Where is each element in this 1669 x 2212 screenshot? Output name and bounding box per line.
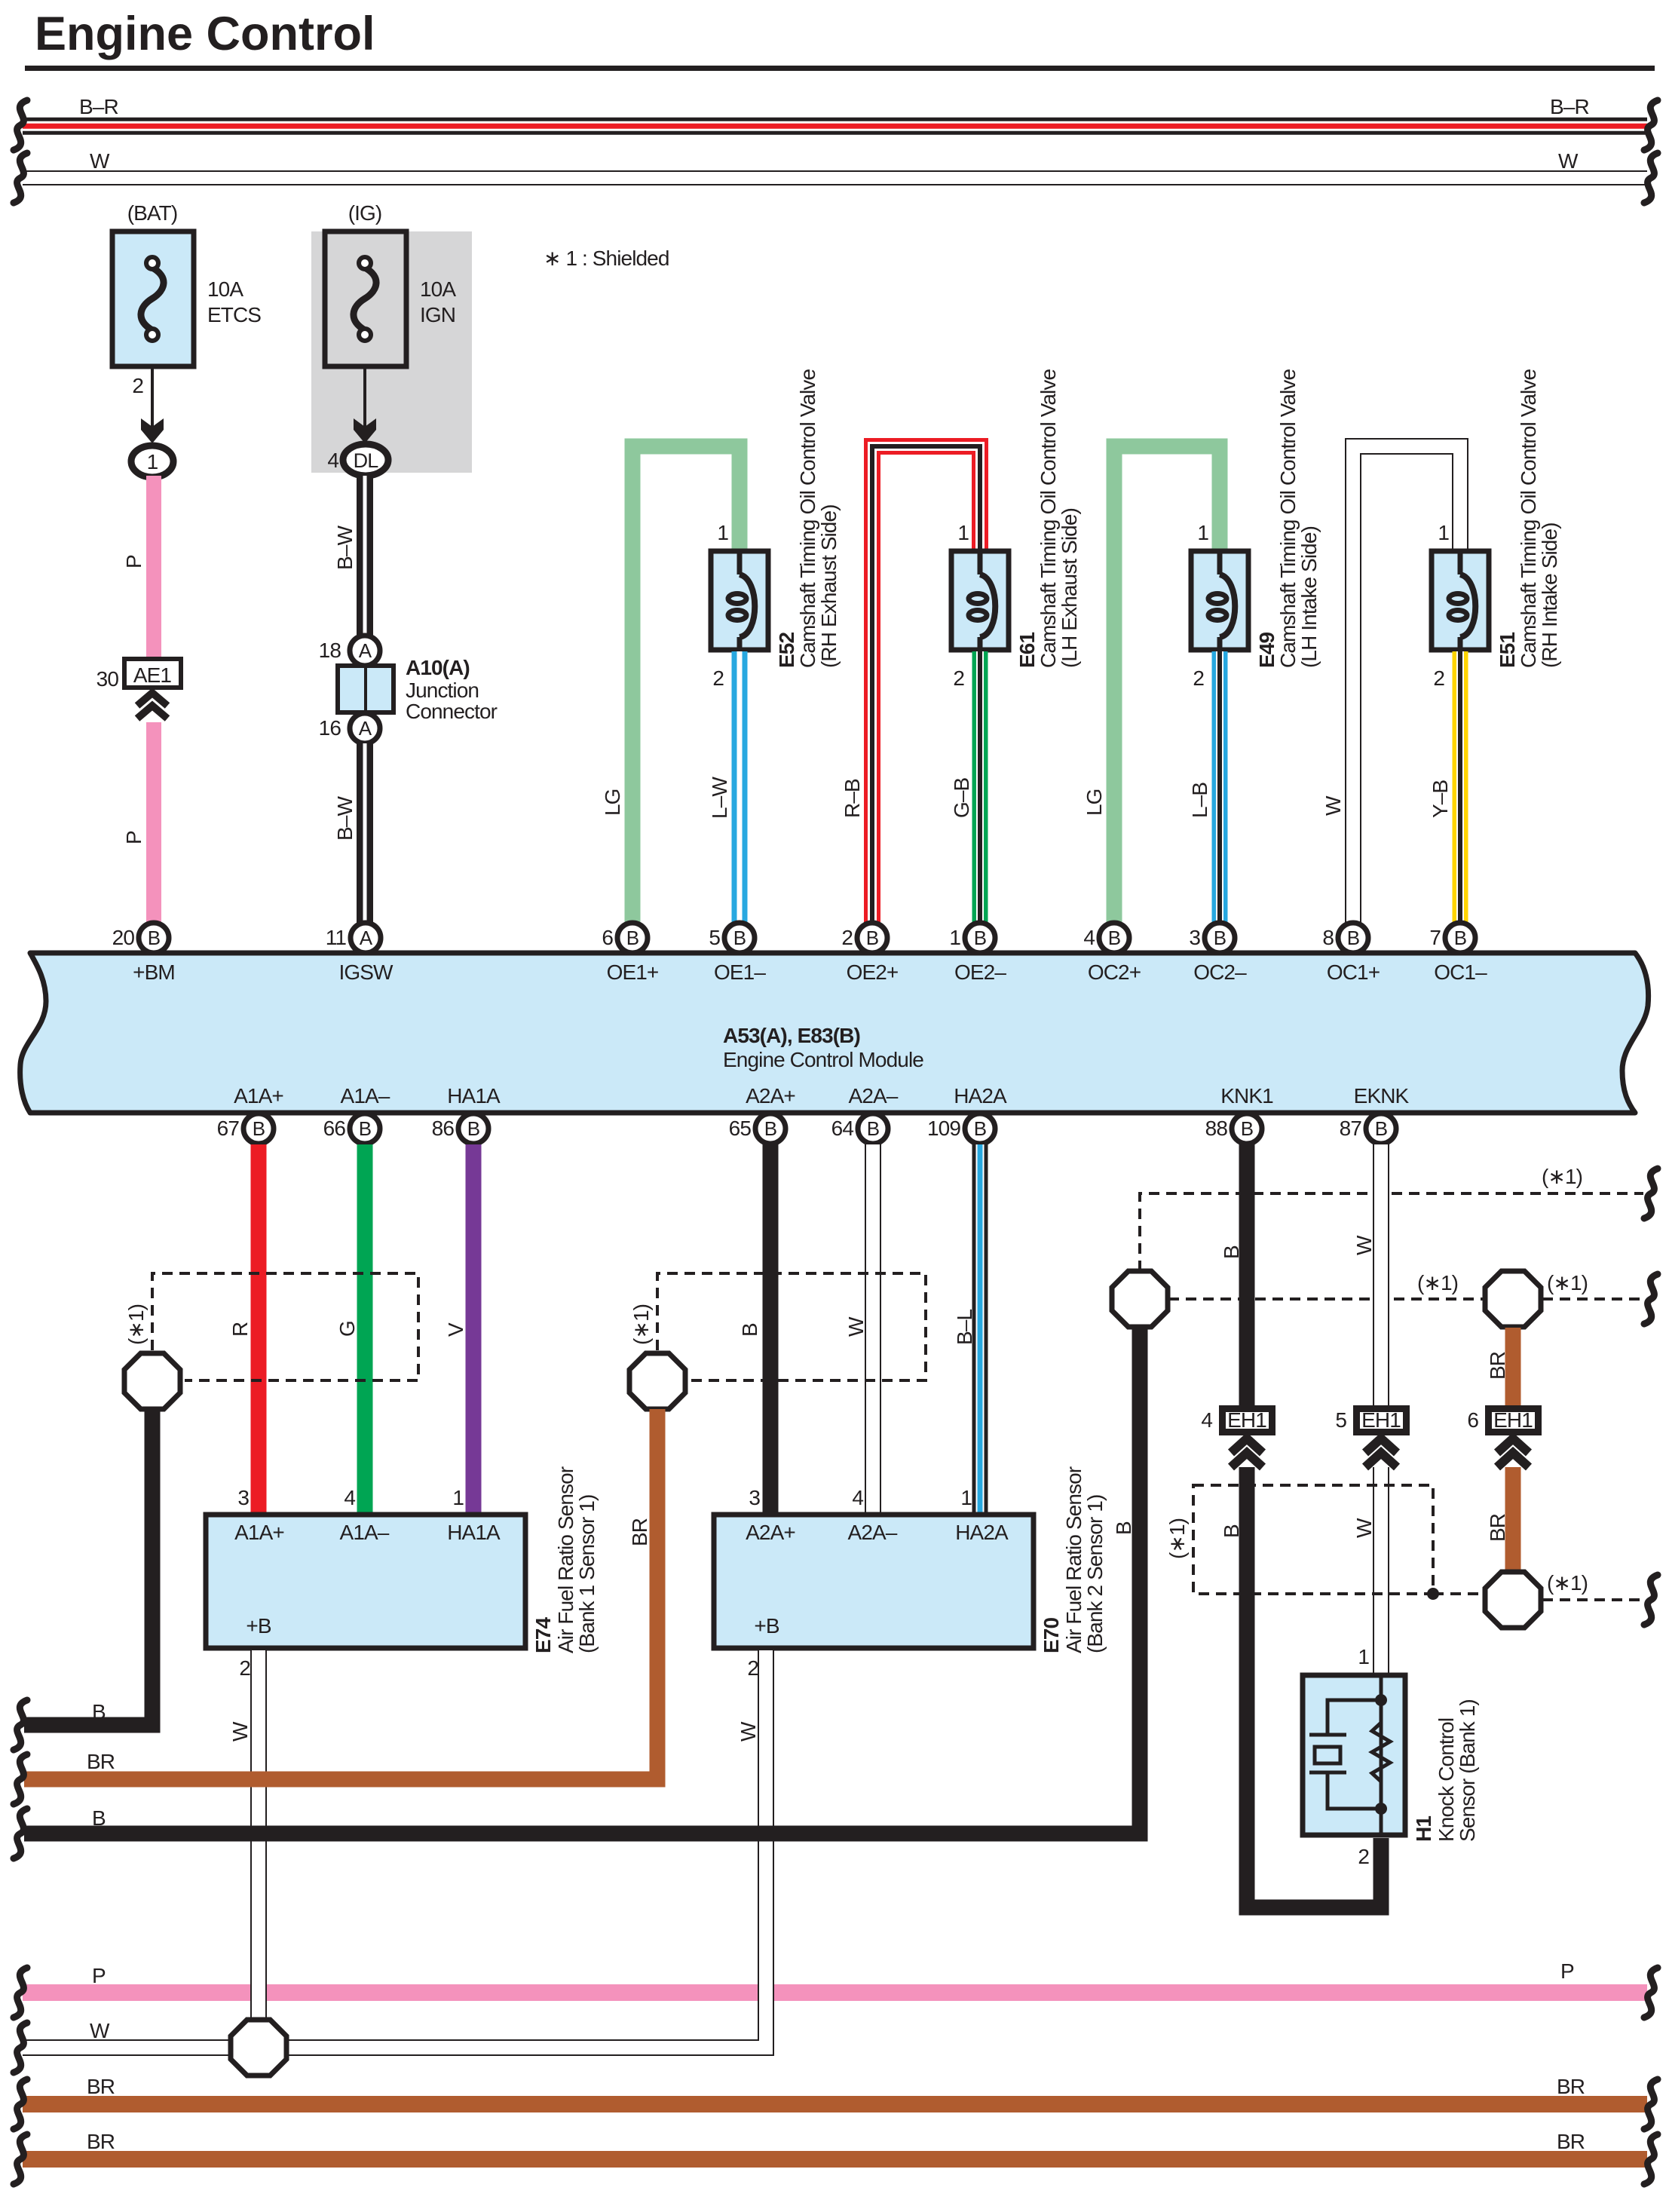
break symbol B bus 2	[14, 1809, 27, 1858]
svg-text:1: 1	[452, 1486, 464, 1509]
fuse 10A IGN box	[325, 231, 406, 366]
ECM name label	[723, 1024, 923, 1071]
svg-text:Camshaft Timing Oil Control Va: Camshaft Timing Oil Control Valve	[1517, 369, 1540, 668]
fuse 10A ETCS box	[112, 231, 194, 366]
svg-text:A1A+: A1A+	[234, 1084, 283, 1108]
svg-text:Air Fuel Ratio Sensor: Air Fuel Ratio Sensor	[1062, 1466, 1086, 1653]
break symbol dashed mid	[1644, 1274, 1658, 1324]
svg-text:5: 5	[1335, 1408, 1346, 1432]
wire L-W (E52 pin 2 to ECM OE1-)	[732, 651, 748, 924]
svg-text:1: 1	[1438, 521, 1449, 544]
E52 component label	[775, 369, 841, 668]
label 10A IGN	[420, 277, 456, 326]
svg-text:A2A+: A2A+	[746, 1521, 795, 1544]
svg-text:+B: +B	[754, 1614, 779, 1638]
svg-text:1: 1	[960, 1486, 972, 1509]
svg-text:E49: E49	[1255, 633, 1279, 668]
svg-text:OE2+: OE2+	[847, 960, 899, 984]
svg-text:A: A	[359, 639, 372, 662]
svg-text:HA1A: HA1A	[447, 1521, 501, 1544]
svg-text:B: B	[92, 1700, 106, 1723]
svg-text:Connector: Connector	[406, 700, 498, 723]
svg-text:B: B	[867, 1117, 879, 1140]
shield box E74 (dashed)	[152, 1273, 418, 1380]
svg-text:7: 7	[1429, 926, 1441, 949]
wire LG (ECM OC2+ loop to E49 pin 1)	[1114, 446, 1220, 924]
svg-text:1: 1	[147, 450, 158, 473]
svg-text:B: B	[1220, 1524, 1243, 1538]
wire B-W (16A to ECM pin 11)	[357, 743, 373, 924]
svg-text:11: 11	[326, 926, 347, 949]
svg-text:G: G	[335, 1321, 359, 1337]
svg-text:30: 30	[96, 667, 119, 691]
svg-text:B: B	[1375, 1117, 1387, 1140]
svg-text:B: B	[733, 927, 746, 949]
svg-text:HA2A: HA2A	[954, 1084, 1007, 1108]
svg-text:(∗1): (∗1)	[629, 1304, 653, 1345]
wire bus BR 3	[23, 2151, 1647, 2168]
dashed shield line (top, *1)	[1140, 1193, 1643, 1271]
svg-text:2: 2	[132, 374, 143, 397]
svg-text:(∗1): (∗1)	[1547, 1571, 1588, 1595]
svg-text:(RH Exhaust Side): (RH Exhaust Side)	[817, 504, 841, 668]
svg-text:BR: BR	[87, 1750, 115, 1773]
junction connector A10(A)	[338, 666, 394, 712]
svg-text:V: V	[444, 1322, 467, 1337]
svg-text:+B: +B	[246, 1614, 271, 1638]
svg-text:W: W	[1352, 1235, 1376, 1255]
svg-text:88: 88	[1205, 1117, 1228, 1140]
svg-text:B: B	[92, 1806, 106, 1830]
ECM pin 64(B) A2A–	[831, 1084, 899, 1144]
label E70 Air Fuel Ratio Sensor	[1040, 1466, 1107, 1653]
svg-text:(LH Intake Side): (LH Intake Side)	[1297, 526, 1321, 668]
svg-text:65: 65	[729, 1117, 752, 1140]
ECM pin 67(B) A1A+	[217, 1084, 283, 1144]
svg-text:20: 20	[112, 926, 135, 949]
svg-text:1: 1	[949, 926, 960, 949]
svg-text:6: 6	[602, 926, 613, 949]
ECM pin 11(A) IGSW	[326, 923, 394, 984]
svg-text:3: 3	[237, 1486, 249, 1509]
svg-text:W: W	[228, 1721, 252, 1742]
svg-text:(Bank 1 Sensor 1): (Bank 1 Sensor 1)	[575, 1495, 599, 1653]
AF sensor E74 box	[206, 1515, 525, 1648]
svg-text:R–B: R–B	[841, 779, 864, 818]
svg-text:B: B	[866, 927, 878, 949]
ECM pin 1(B) OE2–	[949, 923, 1006, 984]
svg-text:Camshaft Timing Oil Control Va: Camshaft Timing Oil Control Valve	[796, 369, 819, 668]
svg-text:E51: E51	[1496, 633, 1519, 668]
svg-text:(∗1): (∗1)	[124, 1304, 148, 1345]
wire bus BR 2	[23, 2096, 1647, 2112]
svg-text:OC2+: OC2+	[1088, 960, 1141, 984]
svg-text:(IG): (IG)	[348, 201, 382, 225]
wire BR (E70 shield to BR bus)	[24, 1409, 657, 1779]
svg-text:10A: 10A	[420, 277, 456, 301]
svg-text:6: 6	[1467, 1408, 1478, 1432]
svg-text:Camshaft Timing Oil Control Va: Camshaft Timing Oil Control Valve	[1037, 369, 1060, 668]
shield octagon (bottom right)	[1485, 1572, 1541, 1628]
svg-text:B: B	[467, 1117, 479, 1140]
svg-text:R: R	[228, 1322, 252, 1337]
wire V (ECM HA1A to E74 pin 1)	[466, 1144, 482, 1514]
ECM pin 2(B) OE2+	[841, 923, 898, 984]
wire Y-B (E51 pin 2 to ECM OC1-)	[1453, 651, 1468, 924]
svg-text:Camshaft Timing Oil Control Va: Camshaft Timing Oil Control Valve	[1276, 369, 1300, 668]
svg-text:B: B	[974, 1117, 986, 1140]
svg-text:B: B	[1214, 927, 1226, 949]
svg-text:Air Fuel Ratio Sensor: Air Fuel Ratio Sensor	[554, 1466, 577, 1653]
svg-text:AE1: AE1	[133, 663, 172, 687]
break symbol dashed bottom	[1644, 1575, 1658, 1625]
wire B (E74 shield to ground bus)	[24, 1409, 152, 1725]
svg-text:E61: E61	[1015, 633, 1039, 668]
svg-text:64: 64	[831, 1117, 854, 1140]
svg-text:4: 4	[327, 449, 338, 472]
svg-text:BR: BR	[1557, 2075, 1585, 2098]
svg-text:L–B: L–B	[1188, 783, 1211, 818]
svg-text:87: 87	[1340, 1117, 1362, 1140]
svg-text:B: B	[148, 927, 160, 949]
shield octagon (BR, EH1-6)	[1485, 1271, 1541, 1327]
wire bus B-R (top)	[23, 118, 1647, 135]
svg-text:(Bank 2 Sensor 1): (Bank 2 Sensor 1)	[1083, 1495, 1107, 1653]
svg-text:B: B	[1241, 1117, 1253, 1140]
svg-text:P: P	[122, 555, 145, 568]
svg-text:2: 2	[1433, 666, 1444, 690]
break symbol W left	[14, 153, 27, 203]
svg-text:A1A–: A1A–	[341, 1084, 390, 1108]
svg-text:E70: E70	[1040, 1618, 1063, 1653]
svg-text:2: 2	[953, 666, 964, 690]
wire W (E70 +B to W bus)	[287, 1650, 766, 2048]
solenoid valve E61 box	[951, 551, 1009, 650]
E61 component label	[1015, 369, 1081, 668]
wire W (E74 +B to W bus octagon)	[250, 1650, 267, 2021]
svg-text:Sensor (Bank 1): Sensor (Bank 1)	[1456, 1699, 1479, 1842]
svg-text:3: 3	[749, 1486, 760, 1509]
svg-text:66: 66	[323, 1117, 346, 1140]
svg-text:4: 4	[852, 1486, 863, 1509]
svg-text:P: P	[1560, 1959, 1574, 1983]
ECM pin 6(B) OE1+	[602, 923, 658, 984]
svg-text:BR: BR	[1486, 1514, 1509, 1542]
wire B-W (DL to junction 18A)	[357, 476, 373, 637]
ECM pin 4(B) OC2+	[1083, 923, 1141, 984]
wire bus P (bottom)	[23, 1984, 1647, 2001]
svg-text:(∗1): (∗1)	[1417, 1271, 1458, 1294]
wire B (ECM A2A+ to E70 pin 3)	[763, 1144, 779, 1514]
svg-text:(∗1): (∗1)	[1542, 1165, 1582, 1188]
connector 1	[131, 446, 173, 477]
label H1 Knock Control Sensor	[1412, 1699, 1479, 1842]
wire G (ECM A1A- to E74 pin 4)	[357, 1144, 373, 1514]
svg-text:P: P	[122, 831, 145, 844]
dashed shield line (mid left)	[1168, 1297, 1484, 1301]
svg-text:A: A	[359, 717, 372, 740]
svg-text:B: B	[1220, 1245, 1243, 1259]
break symbol BR3 left	[14, 2134, 27, 2184]
break symbol dashed top	[1644, 1169, 1658, 1218]
svg-text:109: 109	[927, 1117, 960, 1140]
junction dot on dashed	[1427, 1588, 1439, 1600]
wire fuse IGN to connector DL	[363, 366, 366, 434]
break symbol BR bus 1	[14, 1754, 27, 1804]
E49 component label	[1255, 369, 1321, 668]
break symbol W right	[1644, 153, 1658, 203]
junction pin 18(A)	[350, 636, 380, 666]
svg-text:W: W	[844, 1316, 868, 1337]
label A10(A) Junction Connector	[406, 656, 498, 723]
svg-text:BR: BR	[87, 2075, 115, 2098]
svg-text:BR: BR	[628, 1518, 651, 1546]
svg-text:W: W	[90, 2019, 110, 2042]
svg-text:OE1–: OE1–	[714, 960, 766, 984]
svg-text:Junction: Junction	[406, 679, 479, 702]
label 10A ETCS	[207, 277, 261, 326]
svg-text:OC1–: OC1–	[1434, 960, 1487, 984]
break symbol P right	[1644, 1968, 1658, 2017]
wire B-L (ECM HA2A to E70 pin 1)	[972, 1144, 988, 1514]
ECM pin 8(B) OC1+	[1322, 923, 1380, 984]
chevron below EH1-6	[1497, 1438, 1529, 1453]
svg-text:(LH Exhaust Side): (LH Exhaust Side)	[1058, 508, 1081, 668]
svg-text:8: 8	[1322, 926, 1334, 949]
chevron below EH1-4	[1231, 1438, 1263, 1453]
fuse ETCS element	[141, 257, 164, 341]
svg-text:B: B	[626, 927, 639, 949]
svg-text:4: 4	[344, 1486, 355, 1509]
svg-text:A1A–: A1A–	[340, 1521, 390, 1544]
knock sensor H1 box	[1303, 1675, 1405, 1835]
svg-text:G–B: G–B	[950, 777, 973, 818]
wire fuse ETCS to connector 1	[151, 366, 154, 434]
svg-text:EH1: EH1	[1493, 1408, 1533, 1432]
svg-text:+BM: +BM	[133, 960, 175, 984]
svg-text:OE2–: OE2–	[954, 960, 1006, 984]
svg-text:10A: 10A	[207, 277, 243, 301]
svg-text:L–W: L–W	[708, 777, 731, 819]
svg-text:2: 2	[841, 926, 853, 949]
svg-text:86: 86	[432, 1117, 455, 1140]
connector AE1	[124, 659, 181, 688]
ECM pin 88(B) KNK1	[1205, 1084, 1273, 1144]
break symbol B bus 1	[14, 1700, 27, 1750]
svg-text:IGN: IGN	[420, 303, 455, 326]
svg-text:A1A+: A1A+	[234, 1521, 284, 1544]
svg-text:Engine Control: Engine Control	[35, 8, 375, 60]
ECM A53(A) E83(B) body	[20, 953, 1649, 1113]
ECM pin 86(B) HA1A	[432, 1084, 501, 1144]
ECM pin 5(B) OE1–	[709, 923, 766, 984]
svg-text:A: A	[360, 927, 373, 949]
break symbol BR3 right	[1644, 2134, 1658, 2184]
svg-text:B: B	[1112, 1521, 1135, 1535]
svg-text:4: 4	[1083, 926, 1095, 949]
svg-text:B–L: B–L	[953, 1310, 976, 1345]
arrow into connector DL	[354, 418, 376, 443]
svg-text:B–W: B–W	[333, 796, 357, 841]
wire BR (octagon to EH1-6)	[1505, 1328, 1521, 1407]
svg-text:IGSW: IGSW	[338, 960, 394, 984]
svg-text:16: 16	[319, 716, 341, 740]
shield ground octagon (E70)	[629, 1353, 685, 1409]
E51 component label	[1496, 369, 1561, 668]
svg-text:(∗1): (∗1)	[1547, 1271, 1588, 1294]
shield box KNK (dashed)	[1193, 1485, 1433, 1594]
fuse IGN element	[354, 257, 376, 341]
wire R (ECM A1A+ to E74 pin 3)	[251, 1144, 267, 1514]
svg-text:2: 2	[1193, 666, 1204, 690]
svg-text:2: 2	[1358, 1845, 1369, 1868]
svg-text:Y–B: Y–B	[1429, 780, 1452, 818]
connector DL	[343, 444, 388, 476]
break symbol W bottom left	[14, 2023, 27, 2073]
svg-text:1: 1	[717, 521, 728, 544]
svg-text:18: 18	[319, 639, 341, 662]
svg-text:1: 1	[957, 521, 969, 544]
connector EH1 pin 6	[1489, 1408, 1539, 1432]
svg-text:HA1A: HA1A	[447, 1084, 501, 1108]
break symbol BR2 right	[1644, 2079, 1658, 2129]
svg-text:1: 1	[1358, 1645, 1369, 1668]
svg-text:B–R: B–R	[79, 95, 118, 118]
arrow into connector 1	[141, 418, 164, 443]
wire G-B (E61 pin 2 to ECM OE2-)	[972, 651, 988, 924]
svg-text:ETCS: ETCS	[207, 303, 261, 326]
wire bus W (top)	[23, 170, 1647, 185]
wire L-B (E49 pin 2 to ECM OC2-)	[1212, 651, 1228, 924]
svg-text:B: B	[253, 1117, 265, 1140]
svg-text:W: W	[1352, 1518, 1376, 1538]
svg-text:BR: BR	[1486, 1352, 1509, 1380]
svg-text:LG: LG	[601, 789, 624, 816]
svg-text:W: W	[1321, 795, 1345, 816]
ECM pin 109(B) HA2A	[927, 1084, 1007, 1144]
break symbol B-R right	[1644, 100, 1658, 150]
svg-text:A53(A), E83(B): A53(A), E83(B)	[723, 1024, 860, 1047]
svg-text:E74: E74	[531, 1617, 555, 1653]
break symbol BR2 left	[14, 2079, 27, 2129]
wire B (KNK shield octagon to ground bus)	[24, 1328, 1140, 1834]
svg-text:∗ 1 : Shielded: ∗ 1 : Shielded	[544, 247, 669, 270]
svg-text:A2A–: A2A–	[849, 1084, 899, 1108]
svg-text:HA2A: HA2A	[955, 1521, 1009, 1544]
solenoid valve E51 box	[1432, 551, 1489, 650]
svg-text:BR: BR	[87, 2130, 115, 2153]
wire W (ECM OC1+ loop to E51 pin 1)	[1353, 446, 1460, 924]
svg-text:DL: DL	[354, 449, 379, 472]
svg-text:A10(A): A10(A)	[406, 656, 470, 679]
svg-text:B: B	[974, 927, 986, 949]
svg-text:B: B	[764, 1117, 776, 1140]
wire B (EH1-4 to H1 pin 2)	[1247, 1467, 1381, 1907]
svg-text:B–R: B–R	[1550, 95, 1589, 118]
ECM pin 65(B) A2A+	[729, 1084, 795, 1144]
AF sensor E70 box	[714, 1515, 1034, 1648]
solenoid valve E52 box	[711, 551, 768, 650]
svg-text:B: B	[1347, 927, 1359, 949]
wire W (EKNK ECM to EH1-5)	[1373, 1144, 1389, 1407]
svg-text:BR: BR	[1557, 2130, 1585, 2153]
wire P (AE1 to ECM pin 20)	[146, 722, 161, 924]
svg-text:B: B	[1454, 927, 1466, 949]
dashed shield line (mid right)	[1542, 1297, 1643, 1301]
svg-text:EH1: EH1	[1227, 1408, 1266, 1432]
svg-text:B–W: B–W	[333, 525, 357, 570]
ECM pin 20(B) +BM	[112, 923, 175, 984]
wire bus W (bottom)	[23, 2039, 232, 2056]
svg-text:W: W	[1558, 149, 1579, 173]
svg-text:4: 4	[1201, 1408, 1212, 1432]
break symbol P left	[14, 1968, 27, 2017]
svg-text:EH1: EH1	[1361, 1408, 1401, 1432]
svg-text:5: 5	[709, 926, 720, 949]
svg-text:B: B	[1108, 927, 1120, 949]
wire W (ECM A2A- to E70 pin 4)	[865, 1144, 881, 1514]
dashed line octagon to break	[1542, 1598, 1643, 1601]
title underline	[25, 66, 1655, 71]
svg-text:2: 2	[712, 666, 724, 690]
wire W (EH1-5 to H1 pin 1)	[1373, 1467, 1389, 1674]
svg-text:OE1+: OE1+	[607, 960, 659, 984]
dashed line KNK box to octagon	[1433, 1592, 1484, 1595]
svg-text:H1: H1	[1412, 1816, 1435, 1842]
ECM pin 66(B) A1A–	[323, 1084, 390, 1144]
svg-text:KNK1: KNK1	[1220, 1084, 1273, 1108]
svg-text:LG: LG	[1083, 789, 1106, 816]
ECM pin 87(B) EKNK	[1340, 1084, 1410, 1144]
wire R-B (ECM OE2+ loop to E61 pin 1)	[872, 446, 980, 924]
svg-text:W: W	[90, 149, 110, 173]
shield ground octagon (KNK)	[1112, 1271, 1168, 1327]
gray highlight panel (IG circuit)	[311, 231, 472, 473]
svg-text:67: 67	[217, 1117, 240, 1140]
label E74 Air Fuel Ratio Sensor	[531, 1466, 599, 1653]
svg-text:A2A+: A2A+	[746, 1084, 795, 1108]
solenoid valve E49 box	[1191, 551, 1248, 650]
W bus junction octagon	[231, 2020, 286, 2076]
chevron below EH1-5	[1365, 1438, 1397, 1453]
svg-text:OC1+: OC1+	[1327, 960, 1380, 984]
svg-text:(BAT): (BAT)	[127, 201, 178, 225]
svg-text:A2A–: A2A–	[848, 1521, 898, 1544]
svg-text:1: 1	[1197, 521, 1208, 544]
svg-text:Engine Control Module: Engine Control Module	[723, 1048, 923, 1071]
wire BR (EH1-6 to octagon)	[1505, 1467, 1521, 1573]
ECM pin 3(B) OC2–	[1189, 923, 1247, 984]
svg-text:EKNK: EKNK	[1354, 1084, 1410, 1108]
chevron below AE1	[137, 693, 167, 706]
svg-text:E52: E52	[775, 633, 798, 668]
svg-text:(RH Intake Side): (RH Intake Side)	[1538, 522, 1561, 668]
svg-text:2: 2	[239, 1656, 250, 1680]
wire LG (ECM OE1+ loop to E52 pin 1)	[632, 446, 740, 924]
wire P (fuse ETCS to AE1)	[146, 476, 161, 660]
svg-text:(∗1): (∗1)	[1165, 1518, 1189, 1559]
svg-text:3: 3	[1189, 926, 1200, 949]
svg-text:2: 2	[747, 1656, 758, 1680]
connector EH1 pin 5	[1357, 1408, 1407, 1432]
shield box E70 (dashed)	[657, 1273, 926, 1380]
svg-text:W: W	[737, 1721, 760, 1742]
connector EH1 pin 4	[1223, 1408, 1272, 1432]
wire B (KNK1 ECM to EH1-4)	[1239, 1144, 1255, 1407]
svg-text:B: B	[359, 1117, 371, 1140]
svg-text:Knock Control: Knock Control	[1435, 1718, 1458, 1842]
break symbol B-R left	[14, 100, 27, 150]
